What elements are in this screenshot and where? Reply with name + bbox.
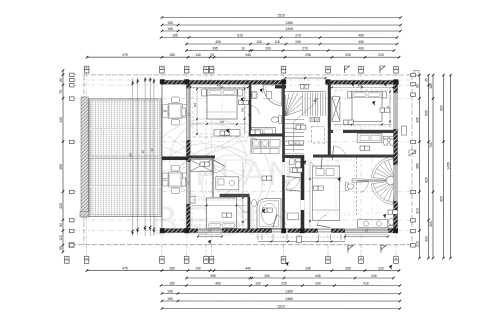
kitchen block right <box>312 166 339 220</box>
svg-text:240: 240 <box>295 40 301 44</box>
stair treads lower (horizontal) <box>285 120 304 154</box>
svg-text:410: 410 <box>363 281 369 285</box>
roof outline dashed <box>84 74 412 76</box>
svg-text:1365: 1365 <box>285 297 293 301</box>
svg-text:90: 90 <box>59 223 63 227</box>
svg-text:530: 530 <box>439 105 443 111</box>
nightstands bed3 <box>348 92 352 98</box>
window flags bottom <box>348 246 353 253</box>
svg-text:10: 10 <box>241 46 245 50</box>
nightstand bed2 <box>190 196 195 203</box>
svg-text:200: 200 <box>265 46 271 50</box>
watermark swirl <box>160 119 271 229</box>
corridor cabinet row lower <box>253 149 279 154</box>
svg-text:215: 215 <box>415 241 419 247</box>
stair treads upper (vertical) <box>303 93 326 117</box>
stair flight label <box>289 141 304 144</box>
bath2 tub <box>257 199 281 229</box>
hall WC toilet <box>295 159 301 169</box>
svg-text:225: 225 <box>281 281 287 285</box>
svg-text:400: 400 <box>215 40 221 44</box>
svg-text:815: 815 <box>237 33 243 37</box>
bath2 door arc <box>239 205 249 213</box>
svg-text:270: 270 <box>295 33 301 37</box>
svg-text:440: 440 <box>245 266 251 270</box>
svg-text:55: 55 <box>59 246 63 250</box>
dresser room1 <box>214 129 240 136</box>
stair walk line <box>294 103 316 152</box>
top wall left piece <box>162 80 285 84</box>
watermark letters <box>150 155 296 244</box>
svg-text:1515: 1515 <box>277 304 285 308</box>
dining set upper <box>163 97 189 125</box>
svg-text:225: 225 <box>59 203 63 209</box>
entry door arcs <box>276 215 285 225</box>
svg-text:400: 400 <box>358 46 364 50</box>
svg-text:475: 475 <box>122 53 128 57</box>
bedroom1 dashed ceiling <box>193 88 245 134</box>
dining set lower <box>162 165 188 193</box>
bath3 vanity <box>357 134 382 143</box>
svg-text:300: 300 <box>424 236 428 242</box>
svg-text:140: 140 <box>195 266 201 270</box>
terrace deck <box>89 99 162 217</box>
hall door arcs <box>290 178 300 190</box>
svg-text:140: 140 <box>195 53 201 57</box>
bedroom3 dashed ceiling <box>335 90 390 126</box>
svg-text:240: 240 <box>241 107 245 112</box>
hall WC sink <box>290 159 295 165</box>
svg-text:165: 165 <box>169 266 175 270</box>
svg-text:1455: 1455 <box>446 162 450 170</box>
svg-text:296: 296 <box>305 53 311 57</box>
svg-text:150: 150 <box>167 289 173 293</box>
right dim columns <box>418 75 420 258</box>
stair winders <box>285 93 302 116</box>
interior dim lines right bedroom <box>389 87 391 128</box>
svg-text:1365: 1365 <box>285 21 293 25</box>
bed 3 <box>352 92 382 122</box>
bath1 corner stub wall <box>275 85 286 88</box>
svg-text:200: 200 <box>264 274 270 278</box>
interior walls <box>249 84 252 136</box>
svg-text:100: 100 <box>256 40 262 44</box>
svg-text:60: 60 <box>59 78 63 82</box>
svg-text:115: 115 <box>59 235 63 240</box>
svg-text:35: 35 <box>141 150 145 154</box>
svg-text:220: 220 <box>378 267 384 271</box>
corridor washers <box>253 140 281 148</box>
svg-text:115: 115 <box>274 40 279 44</box>
room labels <box>239 100 249 104</box>
top dim rows <box>162 16 401 18</box>
stairwell window symbol <box>299 85 310 89</box>
black flags <box>241 97 244 101</box>
svg-text:505: 505 <box>424 110 428 116</box>
terrace vertical dim lines <box>132 78 134 236</box>
construction grid leaders <box>86 73 88 256</box>
svg-text:25: 25 <box>210 53 214 57</box>
fan decor upper <box>371 181 395 205</box>
svg-text:345: 345 <box>59 117 63 123</box>
grid squares bottom <box>64 256 69 263</box>
watermark diagonal strokes <box>150 136 250 180</box>
extra dash-dot lines across <box>190 169 300 171</box>
bottom wall <box>162 229 398 233</box>
svg-text:525: 525 <box>429 221 433 227</box>
bed 1 <box>207 89 237 119</box>
bath3 door arc <box>334 146 346 155</box>
leader stubs bottom <box>161 245 163 257</box>
svg-text:165: 165 <box>169 281 175 285</box>
entry dim row <box>258 241 345 243</box>
top wall right piece <box>326 81 399 85</box>
room2 dashed ceiling <box>192 200 242 225</box>
svg-text:385: 385 <box>129 152 133 157</box>
bath1 vanity <box>252 128 276 136</box>
interior dim lines lower rooms <box>242 162 244 227</box>
svg-text:35: 35 <box>424 78 428 82</box>
wardrobe X room2 <box>190 159 212 171</box>
svg-text:440: 440 <box>245 53 251 57</box>
svg-text:220: 220 <box>378 53 384 57</box>
svg-text:1515: 1515 <box>277 13 285 17</box>
right wall <box>394 81 398 232</box>
bath1 inner door arc <box>251 105 260 114</box>
window sub dims <box>198 235 222 237</box>
svg-text:745: 745 <box>429 142 433 148</box>
window tag boxes left <box>182 108 186 116</box>
bath1 toilet <box>271 116 281 124</box>
svg-text:270: 270 <box>302 46 308 50</box>
svg-text:165: 165 <box>169 53 175 57</box>
left dim column <box>62 70 64 251</box>
svg-text:150: 150 <box>167 297 173 301</box>
extra dashed rugs <box>308 160 338 178</box>
desk room2 <box>216 177 239 190</box>
svg-text:100: 100 <box>255 281 261 285</box>
svg-text:1305: 1305 <box>285 289 293 293</box>
hall shoe cabinet <box>287 213 298 220</box>
partition door arc right <box>361 181 369 192</box>
svg-text:205: 205 <box>345 267 351 271</box>
bedroom2 door arc <box>212 166 224 173</box>
right window tag <box>402 126 407 135</box>
svg-text:75: 75 <box>59 90 63 94</box>
bed 2 <box>207 198 237 229</box>
toilet bottom right <box>389 218 394 228</box>
right unit inner door arc <box>311 161 321 169</box>
stair label <box>310 118 320 122</box>
bottom dim rows <box>87 270 399 272</box>
svg-text:395: 395 <box>212 46 218 50</box>
svg-text:445: 445 <box>315 274 321 278</box>
right marker squares <box>411 73 416 76</box>
grid squares top <box>84 66 89 73</box>
bath2 sink <box>251 200 256 207</box>
entry threshold marks <box>297 236 302 243</box>
svg-text:395: 395 <box>210 274 216 278</box>
svg-text:395: 395 <box>59 164 63 170</box>
porch divider wall <box>162 156 187 160</box>
stairwell opening line <box>285 90 326 92</box>
svg-text:400: 400 <box>215 281 221 285</box>
svg-text:300: 300 <box>220 120 225 124</box>
dashed partition right <box>355 157 357 215</box>
terrace board lines <box>90 127 162 129</box>
svg-text:450: 450 <box>358 33 364 37</box>
toilet right unit <box>345 183 354 191</box>
window flags top <box>345 66 350 73</box>
interior dim lines left bedroom <box>191 86 249 88</box>
svg-text:296: 296 <box>305 267 311 271</box>
svg-text:460: 460 <box>193 102 197 107</box>
left marker squares <box>69 73 74 76</box>
svg-text:240: 240 <box>371 274 377 278</box>
svg-text:90: 90 <box>415 84 419 88</box>
bath1 sink boxes <box>252 92 272 99</box>
bath1 door arc <box>251 138 267 153</box>
nightstands bed1 <box>202 89 207 96</box>
svg-text:450: 450 <box>358 40 364 44</box>
bedroom3 wardrobe X <box>332 97 340 122</box>
svg-text:165: 165 <box>172 33 178 37</box>
svg-text:475: 475 <box>122 266 128 270</box>
corner columns <box>160 79 165 84</box>
svg-text:345: 345 <box>415 117 419 123</box>
svg-text:200: 200 <box>315 281 321 285</box>
svg-text:395: 395 <box>415 163 419 169</box>
svg-text:30: 30 <box>150 148 154 152</box>
vanity bottom right <box>358 220 388 228</box>
bath3 toilet and bidet <box>383 136 394 145</box>
svg-text:1305: 1305 <box>285 27 293 31</box>
stair void dashed <box>312 127 325 144</box>
svg-text:310: 310 <box>415 208 419 214</box>
hall WC boxes <box>290 168 295 173</box>
bath1 corner shower <box>263 85 282 106</box>
svg-text:625: 625 <box>424 177 428 183</box>
svg-text:925: 925 <box>439 196 443 202</box>
terrace retaining wall hatched strip <box>81 97 88 217</box>
porch edge <box>161 84 163 229</box>
left wall <box>186 80 190 231</box>
fan stem leaf <box>352 179 395 183</box>
wardrobe band room2 <box>220 194 250 197</box>
svg-text:150: 150 <box>167 27 173 31</box>
svg-text:185: 185 <box>429 83 433 89</box>
svg-text:150: 150 <box>167 21 173 25</box>
svg-text:205: 205 <box>345 53 351 57</box>
